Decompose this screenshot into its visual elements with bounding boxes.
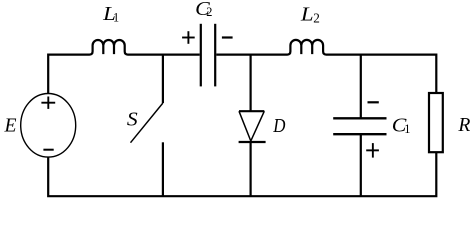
svg-text:R: R xyxy=(457,115,470,136)
svg-text:1: 1 xyxy=(404,122,410,136)
svg-text:E: E xyxy=(4,115,17,136)
svg-text:1: 1 xyxy=(113,11,119,25)
svg-text:2: 2 xyxy=(206,5,212,19)
svg-text:D: D xyxy=(272,116,285,137)
svg-text:L: L xyxy=(300,4,314,25)
svg-text:S: S xyxy=(127,110,138,131)
svg-text:2: 2 xyxy=(313,11,320,26)
